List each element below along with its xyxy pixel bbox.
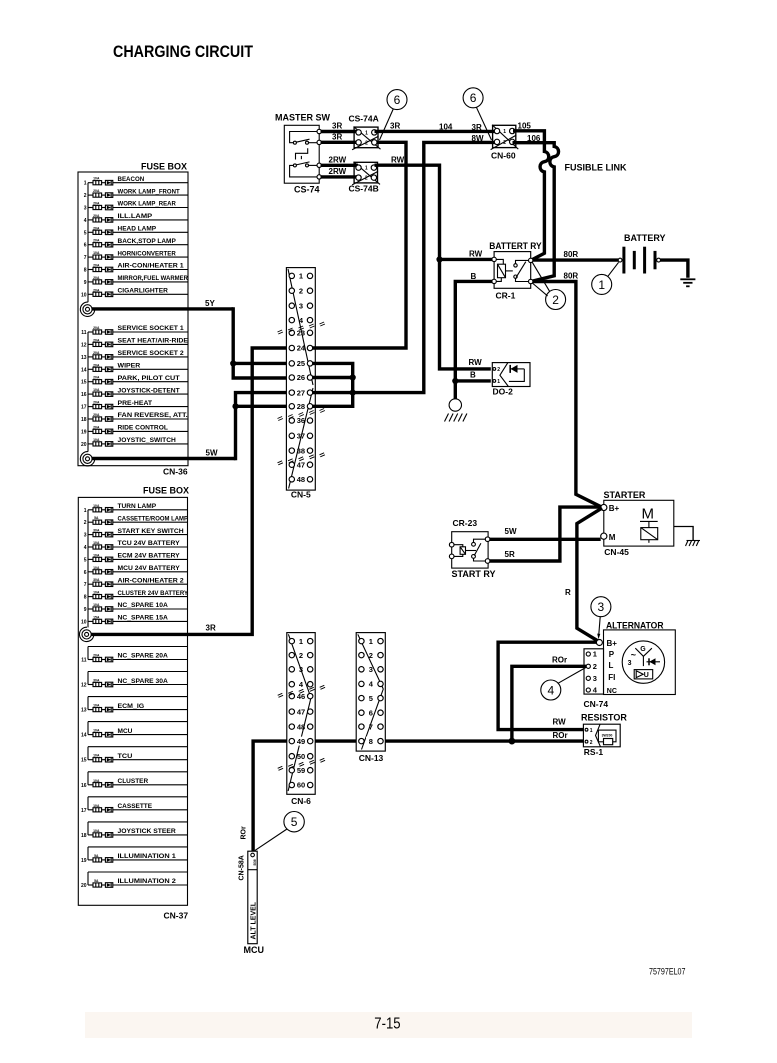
svg-text:NC_SPARE 20A: NC_SPARE 20A bbox=[118, 653, 168, 660]
wire 8W CN-5 pin 27 to CN-60 bbox=[312, 142, 497, 392]
svg-text:20A: 20A bbox=[93, 239, 100, 243]
svg-text:MCU: MCU bbox=[244, 945, 265, 955]
svg-text:5: 5 bbox=[84, 230, 87, 236]
svg-text:AIR-CON/HEATER 1: AIR-CON/HEATER 1 bbox=[118, 263, 184, 270]
svg-text:FUSIBLE LINK: FUSIBLE LINK bbox=[565, 163, 627, 173]
svg-text:1: 1 bbox=[590, 728, 593, 734]
svg-text:10A: 10A bbox=[93, 603, 100, 607]
svg-text:8: 8 bbox=[84, 268, 87, 274]
CN-5 pin 38 bbox=[289, 448, 294, 453]
svg-text:20: 20 bbox=[81, 883, 87, 889]
CN-5 break 38/47 bbox=[278, 453, 325, 465]
svg-text:7: 7 bbox=[369, 722, 373, 731]
svg-text:TCU: TCU bbox=[118, 753, 133, 760]
svg-text:16: 16 bbox=[81, 783, 87, 789]
fuse 2 WORK LAMP_FRONT (20A) bbox=[84, 188, 188, 199]
svg-text:CN-5: CN-5 bbox=[291, 490, 311, 500]
svg-text:19: 19 bbox=[81, 429, 87, 435]
fuse 17 PRE-HEAT (20A) bbox=[81, 400, 188, 411]
svg-text:B+: B+ bbox=[609, 504, 620, 513]
RS-1 key chevron bbox=[596, 724, 601, 747]
svg-text:47: 47 bbox=[297, 707, 305, 716]
CN-6 pin 48 bbox=[289, 724, 294, 729]
svg-text:5W: 5W bbox=[505, 527, 517, 536]
CN-6 pin 46 bbox=[289, 693, 294, 698]
bracket rows 11-20 bbox=[87, 332, 89, 452]
switch 1 wiring bbox=[290, 132, 320, 143]
svg-text:3R: 3R bbox=[390, 122, 400, 131]
svg-text:17: 17 bbox=[81, 405, 87, 411]
CS-74 pin 1 bbox=[317, 129, 321, 133]
svg-text:START KEY SWITCH: START KEY SWITCH bbox=[118, 528, 184, 535]
wire bus CN-5 pins 25-28 right bbox=[312, 363, 353, 406]
DO-2 key chevron bbox=[500, 363, 509, 387]
fuse 5 HEAD LAMP (20A) bbox=[84, 226, 188, 237]
svg-text:104: 104 bbox=[439, 122, 453, 131]
terminal 5Y output bbox=[80, 302, 94, 316]
fuse 10 NC_SPARE 15A (15A) bbox=[81, 615, 188, 626]
svg-text:3: 3 bbox=[84, 533, 87, 539]
svg-text:3: 3 bbox=[299, 665, 303, 674]
svg-text:3R: 3R bbox=[332, 133, 342, 142]
svg-text:10A: 10A bbox=[93, 591, 100, 595]
starter box bbox=[601, 490, 674, 557]
svg-text:FUSE BOX: FUSE BOX bbox=[143, 486, 189, 496]
svg-text:MIRROR,FUEL WARMER: MIRROR,FUEL WARMER bbox=[118, 275, 189, 282]
wire 105 to CR-1 (fusible link left) bbox=[513, 131, 549, 261]
CN-5 pin 36 bbox=[289, 418, 294, 423]
svg-text:HORN/CONVERTER: HORN/CONVERTER bbox=[118, 250, 176, 257]
resistor RS-1 bbox=[581, 713, 627, 757]
cell divider row 14 bbox=[88, 721, 188, 723]
svg-text:37: 37 bbox=[297, 432, 305, 441]
svg-text:1: 1 bbox=[598, 278, 605, 292]
svg-text:B: B bbox=[470, 370, 476, 379]
svg-text:BATTERT RY: BATTERT RY bbox=[489, 241, 541, 251]
battery plate + bbox=[622, 247, 625, 274]
connector CN-5 bbox=[278, 268, 325, 500]
connector CS-74A bbox=[349, 113, 381, 149]
svg-text:1: 1 bbox=[84, 508, 87, 514]
svg-text:PARK, PILOT CUT: PARK, PILOT CUT bbox=[118, 375, 181, 382]
CN-5 pin 27 bbox=[289, 390, 294, 395]
svg-text:7: 7 bbox=[84, 255, 87, 261]
svg-text:10A: 10A bbox=[93, 804, 100, 808]
svg-text:30A: 30A bbox=[93, 578, 100, 582]
fuse 16 CLUSTER (10A) bbox=[81, 778, 188, 789]
CS-74 pin 2 bbox=[317, 140, 321, 144]
wire CN-5 pin 26 right bbox=[312, 376, 353, 379]
CR-1 coil bbox=[494, 259, 503, 264]
CN-5 pin 48 bbox=[289, 477, 294, 482]
svg-text:5: 5 bbox=[291, 815, 298, 829]
svg-text:9: 9 bbox=[84, 280, 87, 286]
connector CN-6 bbox=[278, 633, 325, 806]
starter pin B+ bbox=[601, 504, 607, 510]
fuse 4 ILL.LAMP (20A) bbox=[84, 213, 188, 224]
svg-text:FAN REVERSE, ATT.: FAN REVERSE, ATT. bbox=[118, 412, 188, 419]
svg-text:RESISTOR: RESISTOR bbox=[581, 713, 627, 723]
wire 3R CS-74A to CN-5 pin 24 bbox=[312, 142, 406, 348]
svg-text:MCU: MCU bbox=[118, 728, 133, 735]
wire starter to chassis ground bbox=[674, 527, 693, 541]
svg-text:3: 3 bbox=[593, 674, 597, 683]
CS-74 pin 4 bbox=[317, 175, 321, 179]
wire 3R master pin2 to CS-74A bbox=[321, 141, 359, 144]
junction 5W / pin 28 bbox=[232, 403, 238, 409]
CN-74 pin 1 bbox=[586, 652, 590, 656]
svg-text:5A: 5A bbox=[94, 879, 99, 883]
callout 3 bbox=[591, 597, 611, 640]
RS-1 resistor element bbox=[598, 730, 616, 742]
svg-text:8: 8 bbox=[84, 595, 87, 601]
svg-text:MASTER SW: MASTER SW bbox=[275, 113, 331, 123]
fuse 7 AIR-CON/HEATER 2 (30A) bbox=[84, 577, 188, 588]
svg-text:DO-2: DO-2 bbox=[493, 387, 514, 397]
fuse 17 CASSETTE (10A) bbox=[81, 803, 188, 814]
CN-5 pin 3 bbox=[289, 303, 294, 308]
CN-13 pin 6 bbox=[359, 710, 364, 715]
svg-text:9: 9 bbox=[84, 607, 87, 613]
fuse 9 NC_SPARE 10A (10A) bbox=[84, 602, 188, 613]
svg-text:FI: FI bbox=[608, 673, 615, 682]
svg-text:NC_SPARE 10A: NC_SPARE 10A bbox=[118, 602, 168, 609]
CN-5 key diagonal 1 bbox=[288, 269, 313, 385]
svg-text:5R: 5R bbox=[505, 550, 515, 559]
svg-text:15: 15 bbox=[81, 380, 87, 386]
svg-text:30A: 30A bbox=[93, 529, 100, 533]
svg-text:CHARGING CIRCUIT: CHARGING CIRCUIT bbox=[113, 43, 253, 61]
svg-text:START RY: START RY bbox=[452, 569, 496, 579]
svg-text:28: 28 bbox=[297, 402, 305, 411]
svg-text:10A: 10A bbox=[93, 541, 100, 545]
battery plate - bbox=[654, 251, 657, 269]
svg-text:27: 27 bbox=[297, 388, 305, 397]
fuse 13 ECM_IG (10A) bbox=[81, 703, 188, 714]
svg-text:23: 23 bbox=[297, 329, 305, 338]
CN-6 key diagonal 2 bbox=[288, 698, 311, 791]
DO-2 diode symbol bbox=[510, 368, 525, 370]
CN-6 pin 1 bbox=[289, 638, 294, 643]
svg-text:R: R bbox=[565, 588, 571, 597]
svg-text:CS-74A: CS-74A bbox=[349, 113, 379, 123]
fuse 12 NC_SPARE 30A (30A) bbox=[81, 678, 188, 689]
junction pin26 bus bbox=[350, 374, 356, 380]
svg-text:STARTER: STARTER bbox=[604, 490, 646, 500]
fuse 10 CIGARLIGHTER (20A) bbox=[81, 288, 188, 299]
CN-6 pin 4 bbox=[289, 682, 294, 687]
fuse 13 SERVICE SOCKET 2 (20A) bbox=[81, 350, 188, 361]
svg-text:10A: 10A bbox=[93, 566, 100, 570]
svg-text:2: 2 bbox=[365, 176, 368, 182]
svg-text:10A: 10A bbox=[93, 438, 100, 442]
svg-text:SEAT HEAT/AIR-RIDE: SEAT HEAT/AIR-RIDE bbox=[118, 338, 189, 345]
svg-text:ROr: ROr bbox=[553, 731, 568, 740]
svg-text:2: 2 bbox=[369, 651, 373, 660]
CN-6 pin 49 bbox=[289, 738, 294, 743]
svg-text:B36: B36 bbox=[253, 859, 257, 865]
wire 3R/104 CS-74A to CN-60 bbox=[375, 130, 498, 133]
svg-text:5: 5 bbox=[84, 557, 87, 563]
svg-text:4: 4 bbox=[84, 218, 87, 224]
wire battery to ground bbox=[661, 260, 688, 278]
svg-text:20A: 20A bbox=[93, 338, 100, 342]
svg-text:10A: 10A bbox=[93, 388, 100, 392]
svg-text:NC_SPARE 30A: NC_SPARE 30A bbox=[118, 678, 168, 685]
cell divider row 20 bbox=[88, 871, 188, 873]
svg-text:3: 3 bbox=[628, 660, 632, 667]
svg-text:59: 59 bbox=[297, 766, 305, 775]
wire 2RW master pin4 to CS-74B bbox=[321, 175, 359, 178]
svg-text:48: 48 bbox=[297, 475, 305, 484]
CN-5 pin 2 bbox=[289, 288, 294, 293]
CN-6 pin 59 bbox=[289, 768, 294, 773]
fuse 16 JOYSTICK-DETENT (10A) bbox=[81, 387, 188, 398]
svg-text:20A: 20A bbox=[93, 214, 100, 218]
svg-text:8: 8 bbox=[369, 737, 373, 746]
svg-text:PRE-HEAT: PRE-HEAT bbox=[118, 400, 153, 407]
svg-text:11: 11 bbox=[81, 330, 87, 336]
junction pin27 bus bbox=[350, 390, 356, 396]
svg-text:2: 2 bbox=[299, 286, 303, 295]
fuse 7 HORN/CONVERTER (10A) bbox=[84, 250, 188, 261]
callout 6 (CS-74A) bbox=[380, 90, 408, 140]
fuse 3 WORK LAMP_REAR (20A) bbox=[84, 201, 188, 212]
svg-text:60: 60 bbox=[297, 781, 305, 790]
CN-5 pin 4 bbox=[289, 317, 294, 322]
wire to CN-5 pin 25 bbox=[233, 362, 289, 365]
fuse 20 JOYSTIC_SWITCH (10A) bbox=[81, 437, 188, 448]
terminal 3R output bbox=[79, 627, 93, 641]
svg-text:NC: NC bbox=[607, 688, 617, 695]
svg-text:19: 19 bbox=[81, 858, 87, 864]
svg-text:CN-74: CN-74 bbox=[584, 699, 609, 709]
svg-text:4: 4 bbox=[547, 683, 554, 697]
svg-text:NC_SPARE 15A: NC_SPARE 15A bbox=[118, 615, 168, 622]
svg-text:12: 12 bbox=[81, 683, 87, 689]
wire ROr to CN-74 pin 2 bbox=[512, 666, 586, 740]
callout 2 bbox=[532, 262, 565, 309]
svg-text:M: M bbox=[642, 506, 655, 523]
wire RW alternator B+ to RS-1 pin 1 bbox=[498, 642, 596, 729]
svg-text:2: 2 bbox=[497, 367, 500, 373]
DO-2 pin 2 bbox=[493, 368, 496, 371]
svg-text:10A: 10A bbox=[93, 754, 100, 758]
relay CR-1 BATTERT RY bbox=[489, 241, 541, 301]
wire RW branch to CR-1 bbox=[440, 258, 493, 261]
CN-13 key diagonal 2 bbox=[362, 689, 384, 750]
switch 2 wiring bbox=[290, 165, 320, 177]
footer band bbox=[85, 1012, 692, 1038]
cell divider row 16 bbox=[88, 771, 188, 773]
CR-1 pin 80R (right top) bbox=[529, 258, 533, 262]
svg-text:7: 7 bbox=[84, 582, 87, 588]
svg-text:16: 16 bbox=[81, 392, 87, 398]
svg-text:20A: 20A bbox=[93, 413, 100, 417]
svg-text:RIDE CONTROL: RIDE CONTROL bbox=[118, 425, 168, 432]
svg-text:13: 13 bbox=[81, 708, 87, 714]
svg-text:10A: 10A bbox=[93, 729, 100, 733]
svg-text:12: 12 bbox=[81, 342, 87, 348]
svg-text:ALT LEVEL: ALT LEVEL bbox=[250, 901, 257, 939]
battery terminal right bbox=[657, 258, 661, 262]
cell divider row 11 bbox=[88, 646, 188, 648]
svg-text:6: 6 bbox=[470, 91, 477, 105]
wire 80R bottom CR-1 to starter B+ bbox=[533, 282, 601, 507]
CN-6 pin 60 bbox=[289, 782, 294, 787]
CN-5 pin 26 bbox=[289, 375, 294, 380]
fuse 6 BACK,STOP LAMP (20A) bbox=[84, 238, 188, 249]
svg-text:ILLUMINATION 1: ILLUMINATION 1 bbox=[118, 853, 177, 860]
svg-text:1: 1 bbox=[369, 637, 373, 646]
fuse 19 RIDE CONTROL (20A) bbox=[81, 425, 188, 436]
svg-text:2RW: 2RW bbox=[329, 155, 347, 164]
svg-text:CS-74: CS-74 bbox=[294, 185, 320, 195]
svg-text:CIGARLIGHTER: CIGARLIGHTER bbox=[118, 288, 168, 295]
svg-text:20A: 20A bbox=[93, 288, 100, 292]
wire 5Y vertical to CN-5 bbox=[233, 307, 289, 378]
ground (battery) bbox=[680, 279, 695, 286]
CR-23 coil bbox=[454, 545, 463, 547]
cell divider row 13 bbox=[88, 696, 188, 698]
svg-text:FUSE BOX: FUSE BOX bbox=[141, 162, 187, 172]
svg-text:CN-36: CN-36 bbox=[163, 467, 188, 477]
CN-5 pin 28 bbox=[289, 404, 294, 409]
fuse box CN-36 outline bbox=[78, 172, 188, 466]
svg-text:CN-37: CN-37 bbox=[164, 911, 189, 921]
fuse 14 WIPER (20A) bbox=[81, 363, 188, 374]
starter pin M bbox=[601, 533, 607, 539]
DO-2 pin 1 bbox=[493, 380, 496, 383]
fuse 1 BEACON (10A) bbox=[84, 176, 188, 187]
CN-6 pin 50 bbox=[289, 754, 294, 759]
svg-text:3R: 3R bbox=[332, 122, 342, 131]
3-phase star bbox=[635, 648, 652, 656]
svg-text:80R: 80R bbox=[564, 272, 579, 281]
svg-text:CN-6: CN-6 bbox=[291, 796, 311, 806]
CR-23 pin 5R bbox=[485, 559, 490, 564]
cell divider row 19 bbox=[88, 846, 188, 848]
CN-5 pin 24 bbox=[289, 345, 294, 350]
svg-text:10A: 10A bbox=[93, 779, 100, 783]
fuse 8 CLUSTER 24V BATTERY (10A) bbox=[84, 590, 189, 601]
fuse 5 ECM 24V BATTERY (10A) bbox=[84, 553, 188, 564]
svg-text:1: 1 bbox=[299, 272, 303, 281]
svg-text:1: 1 bbox=[593, 650, 597, 659]
svg-text:36: 36 bbox=[297, 416, 305, 425]
svg-text:SERVICE SOCKET 1: SERVICE SOCKET 1 bbox=[118, 325, 184, 332]
svg-text:CASSETTE/ROOM LAMP: CASSETTE/ROOM LAMP bbox=[118, 515, 189, 522]
wire 5W CR-23 to starter M bbox=[490, 538, 601, 541]
svg-text:18: 18 bbox=[81, 417, 87, 423]
battery terminal left bbox=[618, 258, 622, 262]
callout 6 (CN-60) bbox=[463, 88, 491, 140]
junction 5Y / pin 25 bbox=[230, 360, 236, 366]
terminal 5W output bbox=[80, 452, 94, 466]
CN-13 pin 1 bbox=[359, 638, 364, 643]
svg-text:1: 1 bbox=[503, 129, 506, 135]
wire ROr long (CN-6/CN-13 to RS-1 pin 2) bbox=[253, 741, 584, 852]
svg-text:3: 3 bbox=[299, 301, 303, 310]
fuse 20 ILLUMINATION 2 (5A) bbox=[81, 878, 188, 889]
fuse box CN-37 outline bbox=[78, 497, 187, 905]
svg-text:1: 1 bbox=[84, 181, 87, 187]
svg-text:JOYSTICK STEER: JOYSTICK STEER bbox=[118, 828, 176, 835]
svg-text:14: 14 bbox=[81, 367, 87, 373]
connector CN-13 bbox=[356, 633, 385, 763]
fuse 2 CASSETTE/ROOM LAMP (5A) bbox=[84, 515, 189, 526]
CN-58A pin B36 bbox=[251, 853, 255, 857]
CR-1 switch bbox=[516, 260, 531, 263]
svg-text:20A: 20A bbox=[93, 264, 100, 268]
svg-text:18: 18 bbox=[81, 833, 87, 839]
svg-text:6: 6 bbox=[84, 243, 87, 249]
svg-text:2: 2 bbox=[299, 651, 303, 660]
alternator pin B+ bbox=[596, 640, 602, 646]
svg-text:80R: 80R bbox=[564, 250, 579, 259]
CR-1 pin RW (left top) bbox=[492, 257, 496, 261]
svg-text:20: 20 bbox=[81, 442, 87, 448]
fuse 12 SEAT HEAT/AIR-RIDE (20A) bbox=[81, 338, 189, 349]
svg-text:2: 2 bbox=[593, 662, 597, 671]
svg-text:50: 50 bbox=[297, 752, 305, 761]
fuse 6 MCU 24V BATTERY (10A) bbox=[84, 565, 188, 576]
svg-text:10A: 10A bbox=[93, 504, 100, 508]
svg-text:WIPER: WIPER bbox=[118, 363, 141, 370]
svg-text:20A: 20A bbox=[93, 189, 100, 193]
svg-text:13: 13 bbox=[81, 355, 87, 361]
svg-text:20A: 20A bbox=[93, 654, 100, 658]
svg-text:75797EL07: 75797EL07 bbox=[649, 966, 686, 977]
svg-text:10: 10 bbox=[81, 619, 87, 625]
svg-text:HEAD LAMP: HEAD LAMP bbox=[118, 226, 157, 233]
CN-6 break 4/46 bbox=[278, 685, 325, 697]
wire 2RW master pin3 to CS-74B bbox=[321, 164, 359, 167]
CR-1 pin B (left bottom) bbox=[492, 279, 496, 283]
svg-text:WORK LAMP_REAR: WORK LAMP_REAR bbox=[118, 201, 176, 208]
svg-text:P: P bbox=[609, 650, 615, 659]
cell divider row 18 bbox=[88, 821, 188, 823]
CN-6 break 50/59 bbox=[278, 758, 325, 770]
CN-6 key diagonal 1 bbox=[288, 634, 311, 698]
wire 3R fuse box to CN-5 pin 24 bbox=[91, 348, 290, 634]
svg-text:BEACON: BEACON bbox=[118, 176, 145, 183]
svg-text:RW: RW bbox=[469, 358, 483, 367]
svg-text:CR-23: CR-23 bbox=[453, 518, 478, 528]
svg-text:7-15: 7-15 bbox=[374, 1015, 400, 1032]
wire B to DO-2 pin 1 bbox=[455, 379, 491, 382]
RS-1 pin 1 bbox=[585, 728, 588, 731]
wire 5W vertical to CN-5 pin 27 bbox=[236, 393, 290, 461]
svg-text:47: 47 bbox=[297, 460, 305, 469]
regulator box bbox=[634, 670, 653, 679]
CN-74 pin 3 bbox=[586, 676, 590, 680]
svg-text:20A: 20A bbox=[93, 276, 100, 280]
wire B CR-1 to DO-2/ground bbox=[455, 281, 492, 381]
CN-5 pin 23 bbox=[289, 330, 294, 335]
CR-23 pin left 1 bbox=[449, 542, 454, 547]
fuse 14 MCU (10A) bbox=[81, 728, 188, 739]
svg-text:15A: 15A bbox=[93, 615, 100, 619]
svg-text:6: 6 bbox=[84, 570, 87, 576]
CN-13 pin 2 bbox=[359, 652, 364, 657]
svg-text:3: 3 bbox=[369, 665, 373, 674]
svg-text:CASSETTE: CASSETTE bbox=[118, 803, 153, 810]
svg-text:48: 48 bbox=[297, 722, 305, 731]
svg-text:BACK,STOP LAMP: BACK,STOP LAMP bbox=[118, 238, 177, 245]
svg-text:JOYSTIC_SWITCH: JOYSTIC_SWITCH bbox=[118, 437, 176, 444]
CN-13 key diagonal 1 bbox=[358, 634, 384, 689]
